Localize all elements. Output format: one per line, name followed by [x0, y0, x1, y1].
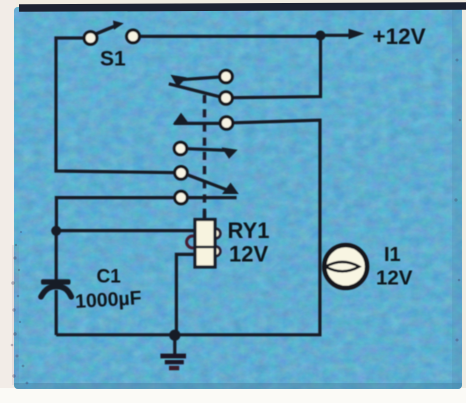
svg-text:C1: C1 — [97, 267, 122, 288]
svg-text:1000µF: 1000µF — [74, 287, 142, 313]
wire: S1 right terminal to +12V junction — [140, 35, 321, 38]
edge speckle noise — [12, 245, 19, 385]
node A (junction on left rail) — [51, 226, 61, 236]
+12V supply arrow — [321, 29, 365, 39]
relay contact row4 line with arrowhead — [187, 147, 238, 158]
node: ground junction — [169, 330, 180, 341]
relay coil RY1 — [187, 211, 221, 267]
contact terminal row1 — [220, 70, 233, 83]
node: +12V junction — [316, 31, 326, 41]
relay contact row3 line — [174, 122, 220, 125]
wire: node A to relay coil left pin — [56, 229, 195, 232]
relay mechanical dashed link — [203, 95, 206, 211]
switch S1 — [84, 21, 139, 45]
wire: relay coil bottom to ground junction — [176, 254, 195, 334]
relay contact pole2 arm with arrowhead — [187, 175, 239, 194]
svg-text:12V: 12V — [229, 242, 268, 267]
wire: contact row6 left then down to node A — [56, 198, 174, 231]
svg-text:12V: 12V — [376, 266, 413, 289]
ground — [160, 354, 186, 371]
svg-text:RY1: RY1 — [228, 218, 270, 243]
dark scan streak along top — [19, 2, 466, 12]
contact terminal row3 — [220, 117, 233, 130]
wire: node A down through capacitor C1 to bottom rail — [55, 231, 58, 335]
relay contact pole1 arm — [169, 84, 220, 97]
contact terminal row5 (pole2 common) — [175, 167, 188, 180]
svg-text:+12V: +12V — [373, 24, 426, 49]
contact terminal row2 (pole1 common) — [220, 92, 233, 105]
svg-text:I1: I1 — [384, 244, 401, 266]
wire: +12V junction down to relay contact row2 (pole1 common) — [233, 36, 321, 98]
contact terminal row4 — [174, 142, 187, 155]
relay contact row6 line — [188, 196, 237, 199]
lamp I1 — [324, 245, 367, 288]
wire: contact row3 right then down past lamp to bottom rail — [56, 120, 320, 335]
contact terminal row6 — [175, 191, 188, 204]
capacitor C1 — [41, 279, 71, 297]
wire: S1 left terminal to left rail down to relay contact row5 — [56, 38, 175, 173]
wire: ground stub — [173, 335, 176, 354]
relay contact row3 arrowhead — [173, 113, 190, 125]
svg-text:S1: S1 — [100, 48, 126, 71]
relay contact pole1 NO line with arrowhead — [171, 75, 220, 87]
